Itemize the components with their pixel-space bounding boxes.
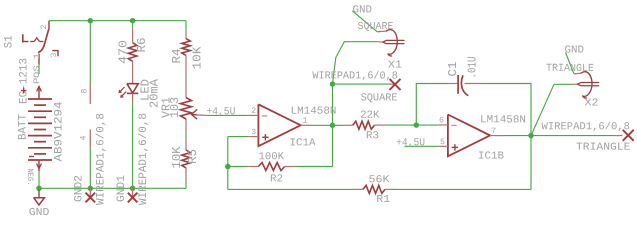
wire switch to battery (38, 65, 40, 75)
net label GND at X2 (564, 45, 584, 57)
wire R4-VR1 gap (185, 77, 187, 82)
junction top rail / power (88, 18, 94, 24)
svg-text:TRIANGLE: TRIANGLE (546, 63, 594, 75)
label C1 (446, 62, 460, 77)
wire R2 left (228, 166, 248, 168)
pot VR1 wiper pin (197, 114, 207, 116)
label R2 (270, 173, 283, 185)
IC1B plus marker (452, 144, 458, 150)
label 2 (251, 107, 256, 116)
svg-text:470: 470 (117, 40, 131, 64)
wire IC1B output (505, 135, 531, 137)
label LM1458N of IC1A (290, 106, 336, 118)
resistor R3 right pin (374, 124, 384, 126)
resistor R2 left pin (248, 166, 258, 168)
op-amp IC1A triangle (258, 104, 300, 146)
wire C1 right to output riser (482, 84, 532, 136)
wirepad TRIANGLE cross (623, 130, 634, 141)
label 6 (439, 116, 444, 125)
wire VR1-R5 gap (185, 133, 187, 138)
label S1 (4, 35, 16, 48)
junction rail / GND2 (88, 186, 94, 192)
junction top rail / R6 (130, 18, 136, 24)
resistor R1 right pin (385, 188, 396, 190)
wire pin3 stub (228, 136, 249, 138)
pot VR1 top pin (185, 82, 187, 98)
svg-text:TRIANGLE: TRIANGLE (576, 142, 631, 154)
wire bottom ground rail (39, 187, 186, 189)
svg-text:R2: R2 (270, 173, 283, 185)
switch S1 pin 1 (38, 54, 40, 65)
svg-text:AB9V1294: AB9V1294 (54, 101, 66, 161)
label pin 4 (80, 136, 89, 141)
bnc X1 signal pin (379, 41, 383, 43)
wire diagonal to X2 (531, 84, 574, 135)
wire R2 right (295, 166, 333, 168)
LED triangle (127, 84, 138, 93)
value EG-1213 (18, 58, 30, 104)
svg-text:5: 5 (440, 138, 445, 147)
wire R3 right to pin6 (385, 124, 439, 126)
value 10K of R5 (170, 146, 184, 169)
value 103 (168, 97, 182, 118)
wire R1 row right (396, 188, 531, 190)
IC1B pin 5 (438, 145, 448, 147)
switch S1 pin 3 (52, 51, 58, 57)
value 100K (258, 151, 284, 163)
junction pin3 / R2 (225, 164, 231, 170)
wire pin5 +4,5V stub (405, 145, 439, 147)
resistor R6 bottom pin (132, 61, 134, 83)
svg-text:WIREPAD1,6/0,8: WIREPAD1,6/0,8 (312, 70, 398, 82)
svg-text:R4: R4 (170, 49, 184, 64)
svg-text:103: 103 (168, 97, 182, 118)
label GND (29, 207, 50, 219)
ic1 power pin 8 (89, 85, 91, 104)
label LED (139, 79, 153, 101)
battery BATT plates (28, 99, 52, 160)
resistor R3 zigzag (353, 121, 375, 129)
label GND2 (74, 175, 86, 202)
resistor R6 top pin (132, 29, 134, 43)
ground GND pin (38, 190, 40, 198)
wire feedback riser (530, 136, 532, 190)
label +4,5V at pin2 (206, 106, 235, 118)
svg-text:R1: R1 (376, 194, 390, 206)
resistor R2 right pin (285, 166, 295, 168)
pot VR1 zigzag (181, 98, 192, 120)
svg-text:X2: X2 (584, 98, 598, 110)
label 2 of S1 (40, 25, 49, 30)
switch S1 actuator stem (23, 41, 29, 43)
value 10K of R4 (190, 46, 204, 70)
svg-text:R3: R3 (366, 130, 379, 142)
IC1B pin 6 (438, 124, 448, 126)
svg-text:R5: R5 (186, 149, 200, 164)
svg-text:X1: X1 (388, 60, 402, 72)
wire wiper to pin2 +4,5V (206, 114, 248, 116)
wire R6 column top (132, 21, 134, 29)
svg-text:GND2: GND2 (74, 175, 86, 202)
wire IC1A output (311, 124, 333, 126)
wirepad GND1 cross (128, 193, 138, 203)
wire R3 left (333, 124, 343, 126)
ic1 power pin 4 (89, 130, 91, 148)
capacitor C1 right pin (465, 83, 482, 85)
net label SQUARE (361, 92, 398, 104)
bnc X2 signal pin (574, 83, 578, 85)
resistor R5 top pin (185, 138, 187, 151)
value 22K (360, 110, 380, 122)
label 3 of S1 (50, 53, 59, 58)
switch S1 contact hook (39, 46, 44, 52)
IC1A minus marker (262, 115, 268, 117)
label pin 8 (81, 89, 90, 94)
capacitor C1 right plate (461, 76, 467, 95)
label R3 (366, 130, 379, 142)
label R5 (186, 149, 200, 164)
junction IC1A out / R3 (330, 123, 336, 129)
resistor R3 left pin (342, 124, 352, 126)
net label SQUARE at X1 (357, 21, 393, 33)
label 5 (440, 138, 445, 147)
svg-text:+4,5U: +4,5U (396, 137, 425, 149)
wire square column (332, 84, 334, 166)
battery plus sign (21, 88, 27, 94)
LED cathode bar (127, 92, 138, 94)
switch S1 blade (44, 28, 49, 46)
label LM1458N of IC1B (480, 114, 526, 126)
wire power column lower (89, 147, 91, 188)
IC1A plus marker (262, 134, 268, 140)
svg-text:GND: GND (29, 207, 50, 218)
svg-text:2: 2 (40, 25, 49, 30)
wire R5 bottom (185, 182, 187, 188)
net label GND at X1 (352, 4, 372, 16)
value 20mA (148, 78, 162, 108)
svg-text:7: 7 (491, 127, 496, 136)
wire R1 row left (228, 188, 353, 190)
junction rail / GND1 (130, 186, 136, 192)
wire top rail (49, 20, 186, 22)
svg-text:4: 4 (80, 136, 89, 141)
svg-text:22K: 22K (360, 110, 380, 122)
svg-text:GND: GND (564, 45, 584, 57)
resistor R1 left pin (353, 188, 363, 190)
label VR1 (160, 97, 174, 118)
resistor R5 bottom pin (185, 168, 187, 182)
resistor R4 zigzag (182, 39, 190, 56)
svg-text:WIREPAD1,6/0,8: WIREPAD1,6/0,8 (541, 121, 630, 133)
resistor R5 zigzag (182, 150, 190, 168)
svg-text:.01U: .01U (465, 57, 479, 79)
resistor R4 top pin (185, 32, 187, 39)
value 470 (117, 40, 131, 64)
IC1B minus marker (451, 124, 457, 126)
svg-text:+4,5U: +4,5U (206, 106, 235, 118)
op-amp IC1B triangle (448, 115, 490, 157)
resistor R2 zigzag (258, 163, 284, 171)
svg-text:WIREPAD1,6/0,8: WIREPAD1,6/0,8 (138, 113, 150, 205)
junction battery neg / GND (36, 186, 42, 192)
pot VR1 wiper arrow (191, 109, 197, 119)
label 3 (251, 128, 256, 137)
resistor R1 zigzag (363, 185, 385, 193)
LED arrow 1 (119, 87, 125, 93)
value WIREPAD1,6/0,8 of GND2 (96, 113, 108, 205)
wire to SQUARE pad (333, 83, 390, 85)
pot VR1 bottom pin (185, 119, 187, 133)
svg-text:BATT: BATT (17, 114, 29, 140)
value WIREPAD1,6/0,8 at TRIANGLE (541, 121, 630, 133)
svg-text:IC1B: IC1B (478, 151, 504, 163)
resistor R6 zigzag (128, 43, 136, 62)
wire to TRIANGLE pad (531, 135, 616, 137)
value .01U (465, 57, 479, 79)
svg-text:6: 6 (439, 116, 444, 125)
battery neg pin (37, 160, 42, 171)
wirepad TRIANGLE pin (616, 135, 622, 137)
label NEG. (25, 169, 34, 186)
label IC1B (478, 151, 504, 163)
svg-text:SQUARE: SQUARE (357, 21, 393, 33)
value WIREPAD1,6/0,8 of GND1 (138, 113, 150, 205)
svg-text:R6: R6 (135, 38, 149, 53)
svg-text:100K: 100K (258, 151, 284, 163)
bnc X1 body (383, 30, 404, 56)
switch S1 pin 2 (48, 21, 50, 29)
capacitor C1 left pin (449, 83, 458, 85)
svg-text:10K: 10K (190, 46, 204, 70)
label R4 (170, 49, 184, 64)
bnc X2 shield pin (574, 72, 582, 75)
wire power column upper (89, 21, 91, 85)
IC1B pin 7 output (490, 135, 505, 137)
value AB9V1294 (54, 101, 66, 161)
switch S1 dashed link (30, 38, 43, 42)
wirepad GND2 pin (89, 188, 91, 197)
junction SQUARE node (330, 81, 336, 87)
ground GND triangle (34, 198, 45, 205)
bnc X1 shield pin (377, 30, 387, 33)
net label TRIANGLE at X2 (546, 63, 594, 75)
svg-text:8: 8 (81, 89, 90, 94)
wire battery neg to junction (38, 171, 40, 188)
label R1 (376, 194, 390, 206)
bnc X2 body (578, 72, 599, 98)
IC1A pin 3 (249, 136, 259, 138)
svg-text:LM1458N: LM1458N (290, 106, 336, 118)
label GND1 (116, 175, 128, 202)
label BATT (17, 114, 29, 140)
label IC1A (289, 137, 316, 149)
svg-text:2: 2 (251, 107, 256, 116)
label 7 (491, 127, 496, 136)
net label TRIANGLE (576, 142, 631, 154)
label +4,5V at pin5 (396, 137, 425, 149)
junction IC1B out node (528, 133, 534, 139)
label POS 1 (33, 53, 42, 84)
wire pin3 column (227, 137, 229, 190)
junction R3 / C1 (414, 122, 420, 128)
value 56K (368, 174, 390, 186)
label R6 (135, 38, 149, 53)
svg-text:1: 1 (303, 117, 308, 126)
label 1 (303, 117, 308, 126)
svg-text:SQUARE: SQUARE (361, 92, 398, 104)
value WIREPAD1,6/0,8 at SQUARE (312, 70, 398, 82)
wirepad GND2 cross (86, 193, 96, 203)
svg-text:10K: 10K (170, 146, 184, 169)
svg-text:WIREPAD1,6/0,8: WIREPAD1,6/0,8 (96, 113, 108, 205)
battery plus pin (37, 86, 42, 99)
wire square riser to X1 (333, 42, 379, 84)
svg-text:3: 3 (50, 53, 59, 58)
IC1A pin 1 output (301, 124, 311, 126)
svg-text:3: 3 (251, 128, 256, 137)
label X2 (584, 98, 598, 110)
battery minus sign (29, 156, 34, 158)
svg-text:IC1A: IC1A (289, 137, 316, 149)
svg-text:EG-1213: EG-1213 (18, 58, 30, 104)
wirepad GND1 pin (132, 188, 134, 197)
wirepad SQUARE cross (390, 79, 401, 90)
wire GND diagonal at X2 (566, 53, 574, 74)
svg-text:LM1458N: LM1458N (480, 114, 526, 126)
svg-text:C1: C1 (446, 62, 460, 77)
label X1 (388, 60, 402, 72)
LED bottom pin (132, 93, 134, 102)
wire LED column bottom (132, 103, 134, 189)
capacitor C1 left plate (457, 75, 459, 94)
LED arrow 2 (121, 92, 127, 98)
wirepad SQUARE pin (390, 83, 395, 85)
svg-text:NEG.: NEG. (25, 169, 34, 186)
resistor R4 bottom pin (185, 55, 187, 77)
svg-text:POS 1: POS 1 (33, 53, 42, 84)
wire C1 left riser (416, 84, 449, 126)
switch S1 actuator bar (22, 34, 24, 42)
wire GND diagonal at X1 (352, 11, 377, 32)
svg-text:GND: GND (352, 4, 372, 16)
wire R4 column top (185, 21, 187, 32)
svg-text:S1: S1 (4, 35, 16, 48)
svg-text:56K: 56K (368, 174, 390, 186)
svg-text:GND1: GND1 (116, 175, 128, 202)
IC1A pin 2 (249, 114, 259, 116)
